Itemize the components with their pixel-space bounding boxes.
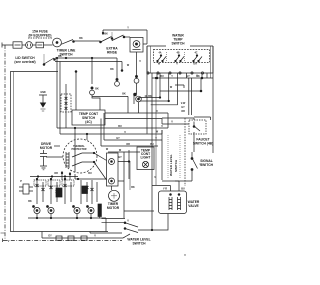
wire BK — [75, 40, 101, 42]
drive motor label — [40, 142, 53, 150]
svg-text:V: V — [156, 110, 158, 113]
svg-text:V: V — [139, 60, 141, 63]
verticals into temp cont switch — [75, 72, 77, 111]
svg-text:BK: BK — [58, 55, 62, 58]
svg-text:W: W — [170, 86, 173, 89]
contact ladder 4 — [81, 180, 87, 204]
svg-text:GND: GND — [40, 91, 46, 94]
svg-text:OR: OR — [126, 143, 130, 146]
svg-text:BU: BU — [181, 188, 185, 191]
connector circles row — [33, 206, 95, 214]
connector pair 2 — [91, 87, 93, 89]
wires right column — [162, 118, 194, 124]
svg-text:W: W — [119, 149, 122, 152]
connector cluster 4A — [136, 83, 138, 94]
wires into cluster from motor — [62, 139, 75, 180]
svg-text:GY: GY — [186, 75, 190, 78]
label: 15A FUSE (IF EQUIPPED) — [28, 30, 51, 38]
svg-text:OR: OR — [193, 63, 197, 66]
wire from valve bottom — [138, 214, 168, 231]
svg-text:V: V — [94, 235, 96, 238]
water temp contacts 4C — [193, 52, 202, 66]
wire bundle middle — [57, 128, 168, 152]
left mini relay — [23, 184, 29, 194]
wires from lid switch — [55, 58, 122, 62]
svg-text:MOTOR: MOTOR — [107, 206, 120, 210]
drive motor — [63, 139, 97, 173]
svg-text:BK: BK — [122, 93, 126, 96]
water temp contacts 4A — [157, 52, 166, 66]
black blob relay 2 — [82, 186, 88, 194]
label water temp switch — [171, 34, 185, 46]
timer line switch — [44, 44, 53, 46]
dashed vertical right — [184, 118, 186, 186]
svg-text:BU: BU — [118, 125, 122, 128]
svg-text:V: V — [176, 63, 178, 66]
svg-text:OR: OR — [181, 110, 185, 113]
svg-text:V-W: V-W — [181, 102, 186, 105]
svg-text:V: V — [124, 131, 126, 134]
svg-text:V: V — [161, 125, 163, 128]
temp cont light — [137, 147, 154, 170]
fuse F1 — [13, 42, 22, 48]
svg-text:Y: Y — [127, 27, 129, 30]
svg-text:(4C): (4C) — [85, 120, 91, 124]
ladder 5 — [92, 180, 97, 204]
wires motor top — [75, 128, 87, 140]
faucet switch — [189, 120, 206, 134]
wire y85 — [175, 85, 184, 88]
connector pair 1 — [116, 78, 118, 80]
lid switch label — [14, 56, 35, 64]
bottom inner wires — [28, 217, 106, 219]
svg-text:GY: GY — [48, 235, 52, 238]
svg-text:SWITCH: SWITCH — [171, 42, 185, 46]
svg-text:WATER LEVEL: WATER LEVEL — [169, 154, 173, 176]
vertical label water level — [169, 154, 178, 176]
misc wire color labels — [28, 75, 198, 223]
console box — [11, 72, 109, 232]
bottom line with inline components — [42, 237, 123, 239]
wire: incoming power — [2, 43, 13, 48]
bottom dash-dot border — [3, 240, 122, 242]
svg-text:BK: BK — [28, 200, 32, 203]
svg-text:BK: BK — [131, 186, 135, 189]
svg-text:BK: BK — [148, 95, 152, 98]
svg-text:W: W — [156, 131, 159, 134]
motor terminal circles — [107, 153, 119, 186]
svg-text:W: W — [127, 64, 130, 67]
svg-text:BU: BU — [160, 75, 164, 78]
water temp contacts 4B — [175, 52, 184, 66]
svg-text:BK: BK — [79, 37, 83, 40]
black blob relay 1 — [56, 188, 62, 197]
svg-text:V: V — [127, 220, 129, 223]
wires from water temp drops going left — [92, 95, 128, 97]
ground — [40, 91, 46, 94]
connector block — [32, 44, 36, 46]
svg-text:Y-R: Y-R — [163, 188, 167, 191]
capacitor — [46, 156, 63, 158]
contact ladder 3 — [65, 180, 71, 204]
svg-text:BU: BU — [88, 172, 92, 175]
svg-text:RINSE: RINSE — [107, 51, 118, 55]
wire top bus — [103, 30, 147, 35]
svg-text:4B: 4B — [176, 52, 179, 55]
svg-text:SWITCH: SWITCH — [132, 242, 146, 246]
svg-text:MOTOR: MOTOR — [40, 146, 53, 150]
water valve — [159, 191, 187, 214]
signal switch — [192, 152, 198, 178]
svg-text:Y: Y — [171, 75, 173, 78]
water temp switch box — [147, 46, 213, 73]
long vertical to water level — [151, 73, 153, 230]
svg-text:SWITCH: SWITCH — [174, 159, 178, 172]
svg-text:W: W — [158, 63, 161, 66]
svg-text:GY: GY — [116, 137, 120, 140]
wire: pilot lamp drop — [136, 52, 138, 76]
bus y78 — [152, 77, 213, 79]
svg-text:BK: BK — [95, 88, 99, 91]
ink speck — [184, 254, 185, 255]
svg-text:(see overleaf): (see overleaf) — [14, 60, 35, 64]
left dash-dot border — [4, 45, 6, 239]
right border — [212, 46, 214, 153]
black connector bar — [98, 204, 101, 217]
wires below water temp box — [157, 73, 207, 105]
svg-text:W: W — [106, 148, 109, 151]
noise filter dashed box — [61, 94, 71, 112]
svg-text:GY: GY — [181, 106, 185, 109]
label: water level switch — [127, 238, 150, 246]
lid switch — [43, 55, 45, 67]
timer contact cluster — [30, 176, 97, 204]
svg-text:V: V — [171, 121, 173, 124]
svg-text:BK: BK — [110, 68, 114, 71]
pilot lamp — [124, 36, 130, 38]
wires above timer motor — [111, 186, 113, 190]
contact ladder 1 — [37, 180, 43, 204]
svg-text:VALVE: VALVE — [188, 204, 199, 208]
svg-text:SWITCH: SWITCH — [200, 163, 214, 167]
dots top — [36, 178, 38, 180]
wires to water valve — [152, 181, 179, 191]
water level enclosure — [124, 152, 154, 218]
svg-text:PROTECTOR: PROTECTOR — [72, 148, 87, 151]
svg-text:GY: GY — [118, 156, 122, 159]
connector: pilot drop — [135, 75, 137, 77]
svg-text:4A: 4A — [158, 52, 161, 55]
svg-text:SWITCH (4B): SWITCH (4B) — [193, 142, 213, 146]
svg-text:OR: OR — [54, 172, 58, 175]
timer motor — [109, 190, 120, 201]
right wire mesh — [160, 78, 201, 91]
plug P1 — [22, 44, 26, 46]
svg-text:P: P — [20, 180, 22, 183]
water level switch wires — [102, 219, 126, 223]
bus — [30, 176, 78, 178]
extra rinse switch — [100, 41, 102, 43]
svg-text:LIGHT: LIGHT — [141, 156, 151, 160]
contact ladder 2 — [51, 180, 57, 204]
svg-text:4C: 4C — [194, 52, 197, 55]
wire into water temp box — [143, 30, 147, 44]
svg-text:(IF EQUIPPED): (IF EQUIPPED) — [28, 34, 51, 38]
temp cont switch box — [72, 110, 105, 125]
